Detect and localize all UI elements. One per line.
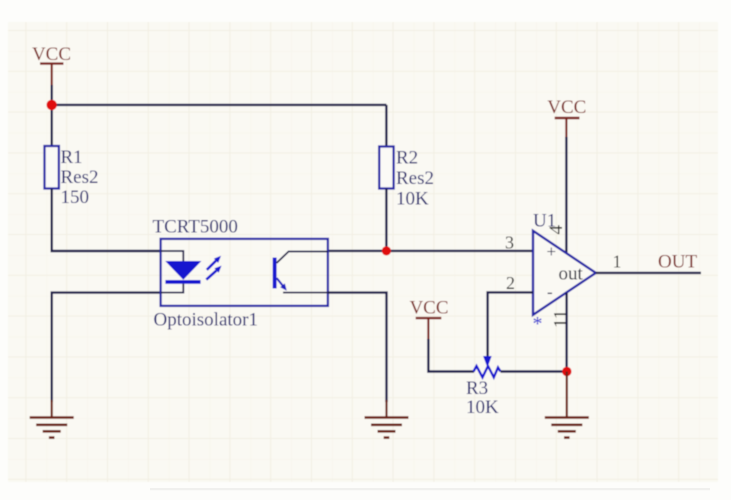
svg-text:VCC: VCC [32,44,71,65]
svg-text:11: 11 [551,310,572,328]
ground symbol (right) [545,418,589,438]
svg-text:Optoisolator1: Optoisolator1 [154,310,259,331]
wire R2 bottom to junction [385,189,387,251]
junction dot VCC/R1/R2 [47,100,57,110]
svg-text:R1: R1 [61,147,83,168]
svg-text:4: 4 [546,225,567,235]
power VCC net label (R3 branch) [409,298,448,341]
opto phototransistor emitter lead with arrow [277,278,328,293]
opto emission arrow 1 [207,256,221,270]
label R1 / Res2 / 150 [61,147,99,208]
svg-text:out: out [559,264,584,285]
no label: decorative [150,488,710,490]
svg-text:150: 150 [61,187,90,208]
power VCC net label (op-amp supply) [547,97,586,138]
svg-text:-: - [547,283,553,302]
wire pin 2 to R3 wiper [488,292,533,356]
potentiometer R3 zigzag [474,366,501,377]
opto emission arrow 2 [206,266,221,280]
svg-text:R3: R3 [466,378,488,399]
opto LED triangle [166,262,200,280]
wire op-amp output [596,272,701,274]
svg-text:VCC: VCC [547,97,586,118]
opto LED cathode bar [165,280,200,284]
resistor R1 body [45,146,59,189]
R3 wiper arrow [483,356,492,368]
wire opto emitter to ground leg [328,293,387,402]
wire top horizontal VCC rail [52,104,387,106]
svg-text:Res2: Res2 [61,167,99,188]
wire R2 drop from rail [385,105,387,147]
svg-text:+: + [547,242,557,261]
wire R1 bottom to opto LED anode [52,189,161,252]
wire VCC to R3 left terminal [428,339,474,372]
svg-text:1: 1 [613,252,622,272]
ground stub (right) [566,372,568,418]
ground stub (left) [51,400,53,418]
ground symbol (left) [30,418,74,438]
svg-text:*: * [533,313,543,335]
svg-text:2: 2 [506,273,515,293]
optoisolator TCRT5000 body [161,239,328,306]
opto phototransistor collector lead [277,252,328,264]
svg-text:10K: 10K [466,397,499,418]
ground symbol (middle) [365,418,409,438]
svg-text:3: 3 [505,233,514,253]
op-amp U1 triangle [533,231,596,315]
ground stub (middle) [385,400,387,418]
wire opto LED cathode to ground leg [52,293,161,402]
opto LED cathode internal lead [161,284,184,293]
svg-text:10K: 10K [396,189,429,210]
svg-text:OUT: OUT [658,252,697,273]
power VCC net label (R1 branch) [32,44,71,86]
opto phototransistor base bar [273,258,277,289]
opto LED anode internal lead [161,251,184,262]
label R3 / 10K [466,378,499,418]
wire R3 right terminal to junction [501,370,567,372]
svg-text:TCRT5000: TCRT5000 [153,217,238,238]
svg-text:R2: R2 [396,148,418,169]
wire collector node to op-amp pin 3 [328,250,533,252]
junction dot R3/pin11/ground [562,367,571,376]
wire junction to R1 top [51,105,53,146]
wire VCC to op-amp pin 4 [565,137,567,253]
junction dot R2/opto/pin3 [382,246,391,255]
label R2 / Res2 / 10K [396,148,434,210]
wire op-amp pin 11 to junction [565,293,567,372]
resistor R2 body [379,147,393,189]
svg-text:Res2: Res2 [396,168,434,189]
svg-text:VCC: VCC [409,298,448,319]
wire VCC to junction [51,85,53,105]
